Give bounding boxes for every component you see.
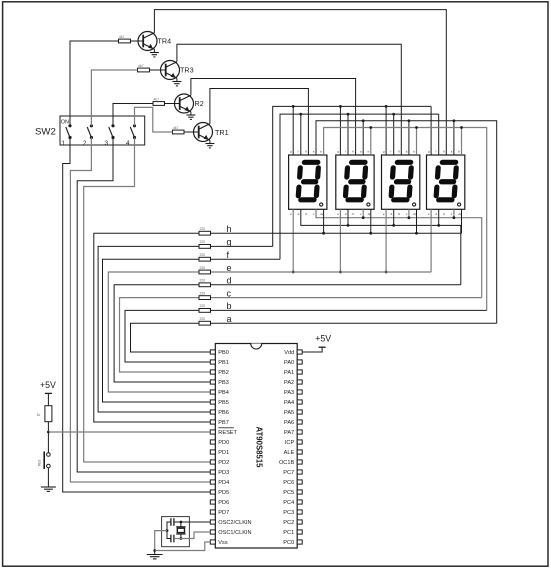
wire caps to ground xyxy=(155,531,167,551)
pin left RESET xyxy=(210,430,215,434)
svg-text:PC5: PC5 xyxy=(283,490,294,496)
pin left PD3 xyxy=(210,470,215,474)
resistor Rd xyxy=(199,283,211,287)
display DS1 seven-segment xyxy=(289,150,327,216)
wire dp pins down to h line xyxy=(323,209,325,233)
node OSC2 junction xyxy=(180,521,183,524)
pin right PA5 xyxy=(297,410,302,414)
ground reset button xyxy=(41,486,56,488)
wire C1 to OSC2 pin xyxy=(174,521,210,523)
pin right PC7 xyxy=(297,470,302,474)
wire pullup to reset node xyxy=(47,422,49,432)
svg-text:+5V: +5V xyxy=(315,334,331,344)
svg-text:3: 3 xyxy=(105,140,109,147)
transistor TR1 xyxy=(194,123,213,142)
svg-text:K: K xyxy=(443,212,445,216)
svg-text:1: 1 xyxy=(62,140,66,147)
wire a bus over displays xyxy=(316,121,497,323)
wire TR2 collector to display2 common xyxy=(191,79,356,156)
display DS3 seven-segment xyxy=(382,150,420,216)
resistor base TR2 xyxy=(153,102,165,106)
wire d bus under displays xyxy=(301,209,461,284)
pin right Vdd xyxy=(297,350,302,354)
svg-text:220: 220 xyxy=(200,266,206,270)
switch SW2 pole 2 xyxy=(90,124,93,127)
svg-text:OC1B: OC1B xyxy=(279,460,295,466)
pin left PD4 xyxy=(210,480,215,484)
svg-text:PD2: PD2 xyxy=(218,460,229,466)
pin right PC6 xyxy=(297,480,302,484)
wire SW2-3 to TR2 base resistor xyxy=(113,104,153,126)
svg-text:PA1: PA1 xyxy=(284,370,294,376)
pin left PB1 xyxy=(210,360,215,364)
pin right PC3 xyxy=(297,510,302,514)
svg-text:4k7: 4k7 xyxy=(138,64,144,68)
wire e pins down to e line xyxy=(292,209,294,272)
resistor Rh xyxy=(199,231,211,235)
svg-text:220: 220 xyxy=(200,291,206,295)
pin left PB3 xyxy=(210,380,215,384)
svg-text:OSC2/CLKIN: OSC2/CLKIN xyxy=(218,520,251,526)
svg-text:1k: 1k xyxy=(37,413,41,417)
capacitor C1 xyxy=(170,518,172,526)
pin left PD0 xyxy=(210,440,215,444)
wire TR3 collector to display3 common xyxy=(177,44,401,155)
wire segment net g xyxy=(211,245,273,247)
resistor Re xyxy=(199,270,211,274)
svg-text:K: K xyxy=(352,150,354,154)
svg-text:PC4: PC4 xyxy=(283,500,294,506)
wire segment net a xyxy=(211,322,497,324)
svg-text:PC6: PC6 xyxy=(283,480,294,486)
svg-text:K: K xyxy=(305,212,307,216)
svg-text:Vdd: Vdd xyxy=(284,350,294,356)
wire SW2-1 to TR4 base resistor xyxy=(70,41,119,126)
switch SW2 pole 4 xyxy=(133,124,136,127)
wire f bus over displays xyxy=(280,114,439,259)
svg-text:SW2: SW2 xyxy=(35,127,56,138)
svg-text:OSC1/CLKIN: OSC1/CLKIN xyxy=(218,530,251,536)
svg-text:PB2: PB2 xyxy=(218,370,229,376)
svg-text:PC7: PC7 xyxy=(283,470,294,476)
pin right OC1B xyxy=(297,460,302,464)
switch SW2 box xyxy=(60,116,145,145)
wire segment net h xyxy=(211,232,462,234)
svg-text:K: K xyxy=(398,212,400,216)
IC U1 AT90S8515 body xyxy=(215,344,297,549)
wire Vss to ground xyxy=(155,542,211,551)
wire b bus over displays xyxy=(324,128,487,311)
svg-text:PC3: PC3 xyxy=(283,510,294,516)
svg-text:K: K xyxy=(398,150,400,154)
pin right ALE xyxy=(297,450,302,454)
svg-text:TR4: TR4 xyxy=(158,37,172,46)
svg-text:PD5: PD5 xyxy=(218,490,229,496)
svg-text:TR1: TR1 xyxy=(215,128,229,137)
svg-text:PC0: PC0 xyxy=(283,540,294,546)
display DS2 seven-segment xyxy=(336,150,374,216)
wire SW2-2 to TR3 base resistor xyxy=(91,70,137,126)
resistor Rb xyxy=(199,309,211,313)
svg-text:K: K xyxy=(443,150,445,154)
pin left PB4 xyxy=(210,390,215,394)
wire SW2-4 to PD2 xyxy=(84,138,211,463)
svg-text:220: 220 xyxy=(200,304,206,308)
node OSC1 junction xyxy=(180,537,183,540)
wire SW2-3 to PD3 xyxy=(77,138,210,473)
node cap common junction xyxy=(166,529,169,532)
svg-text:PB3: PB3 xyxy=(218,380,229,386)
svg-text:220: 220 xyxy=(200,279,206,283)
svg-text:4k7: 4k7 xyxy=(119,35,125,39)
svg-text:4k7: 4k7 xyxy=(154,97,160,101)
svg-text:PB7: PB7 xyxy=(218,420,229,426)
node reset junction xyxy=(47,431,50,434)
svg-text:AT90S8515: AT90S8515 xyxy=(255,426,264,468)
wire SW2-2 to PD4 xyxy=(70,138,210,483)
ground under TR4 xyxy=(153,49,155,52)
pin left PD1 xyxy=(210,450,215,454)
svg-text:PD4: PD4 xyxy=(218,480,229,486)
svg-text:R2: R2 xyxy=(195,99,204,108)
pin left PB0 xyxy=(210,350,215,354)
wire TR2 base lead xyxy=(165,103,180,105)
crystal circuit enclosure xyxy=(162,517,190,547)
svg-text:PD0: PD0 xyxy=(218,440,229,446)
svg-text:PA6: PA6 xyxy=(284,420,294,426)
svg-text:PB5: PB5 xyxy=(218,400,229,406)
pin left PB5 xyxy=(210,400,215,404)
pin right PC5 xyxy=(297,490,302,494)
svg-text:PB0: PB0 xyxy=(218,350,229,356)
IC notch xyxy=(251,344,262,350)
svg-text:220: 220 xyxy=(200,253,206,257)
svg-text:220: 220 xyxy=(200,227,206,231)
wire g bus over displays xyxy=(273,106,431,246)
svg-text:PA4: PA4 xyxy=(284,400,294,406)
resistor Rf xyxy=(199,257,211,261)
pin left PB6 xyxy=(210,410,215,414)
resistor R9 1k pullup xyxy=(47,393,49,405)
svg-text:220: 220 xyxy=(200,240,206,244)
wire TR1 collector to display1 common xyxy=(210,89,309,156)
pin left PB2 xyxy=(210,370,215,374)
svg-text:f: f xyxy=(298,150,299,154)
pin left PD6 xyxy=(210,500,215,504)
pin right ICP xyxy=(297,440,302,444)
ground under TR1 xyxy=(209,140,211,143)
node ground junction xyxy=(153,549,156,552)
wire capacitor left commons xyxy=(167,522,171,539)
svg-text:f: f xyxy=(345,150,346,154)
svg-text:PD7: PD7 xyxy=(218,510,229,516)
pin right PC0 xyxy=(297,540,302,544)
resistor Rg xyxy=(199,245,211,249)
svg-text:4: 4 xyxy=(126,140,130,147)
svg-text:PA3: PA3 xyxy=(284,390,294,396)
pin right PA1 xyxy=(297,370,302,374)
resistor base TR3 xyxy=(138,68,150,72)
svg-text:+5V: +5V xyxy=(40,380,56,390)
wire segment net e xyxy=(211,271,432,273)
wire C2 to OSC1 pin xyxy=(174,532,210,539)
pin right PC2 xyxy=(297,520,302,524)
transistor TR3 xyxy=(161,61,180,80)
ground under TR3 xyxy=(176,78,178,81)
svg-text:220: 220 xyxy=(200,317,206,321)
svg-text:Vss: Vss xyxy=(218,540,228,546)
svg-text:a: a xyxy=(227,314,232,324)
ground under R2 xyxy=(190,112,192,115)
svg-text:TR3: TR3 xyxy=(180,66,194,75)
switch SW2 pole 3 xyxy=(111,124,114,127)
svg-text:2: 2 xyxy=(83,140,87,147)
svg-text:PA0: PA0 xyxy=(284,360,294,366)
crystal X1 xyxy=(180,522,182,527)
svg-text:PD6: PD6 xyxy=(218,500,229,506)
svg-text:PA7: PA7 xyxy=(284,430,294,436)
wire segment net f xyxy=(211,258,281,260)
pin right PA0 xyxy=(297,360,302,364)
wire SW2-4 to TR1 base resistor xyxy=(135,107,173,132)
svg-text:PC1: PC1 xyxy=(283,530,294,536)
svg-text:PA2: PA2 xyxy=(284,380,294,386)
wire segment net c xyxy=(211,297,482,299)
pin left OSC1/CLKIN xyxy=(210,530,215,534)
resistor Ra xyxy=(199,321,211,325)
pin left PD5 xyxy=(210,490,215,494)
wire segment net b xyxy=(211,309,487,311)
svg-text:h: h xyxy=(227,224,232,234)
resistor base TR4 xyxy=(119,39,131,43)
svg-text:PB1: PB1 xyxy=(218,360,229,366)
pin right PC1 xyxy=(297,530,302,534)
svg-text:ON: ON xyxy=(61,119,69,125)
svg-text:d: d xyxy=(227,276,232,286)
wire TR1 base lead xyxy=(184,131,199,133)
pin right PC4 xyxy=(297,500,302,504)
pin right PA2 xyxy=(297,380,302,384)
svg-text:4k7: 4k7 xyxy=(173,126,179,130)
resistor Rc xyxy=(199,296,211,300)
wire TR3 base lead xyxy=(150,69,166,71)
wire segment net d xyxy=(211,284,461,286)
wire button to ground xyxy=(47,468,49,487)
wire SW2-1 to PD5 xyxy=(63,138,211,493)
pin left PD2 xyxy=(210,460,215,464)
push button reset xyxy=(47,432,49,453)
wire c bus under displays xyxy=(316,209,482,297)
wire Vdd to +5V xyxy=(302,347,322,352)
svg-text:K: K xyxy=(305,150,307,154)
wire reset node to RESET pin xyxy=(48,431,210,433)
pin left PB7 xyxy=(210,420,215,424)
pin right PA6 xyxy=(297,420,302,424)
svg-text:g: g xyxy=(227,237,232,247)
transistor R2 xyxy=(175,94,194,113)
pin right PA4 xyxy=(297,400,302,404)
display DS4 seven-segment xyxy=(427,150,465,216)
svg-text:PD3: PD3 xyxy=(218,470,229,476)
svg-text:RES: RES xyxy=(38,460,42,467)
transistor TR4 xyxy=(138,32,157,51)
ground crystal xyxy=(154,551,156,555)
svg-text:PB6: PB6 xyxy=(218,410,229,416)
capacitor C2 xyxy=(170,535,172,543)
switch SW2 pole 1 xyxy=(68,124,71,127)
wire TR4 collector to display4 common xyxy=(154,10,446,155)
svg-text:PB4: PB4 xyxy=(218,390,229,396)
svg-text:ICP: ICP xyxy=(285,440,295,446)
pin left PD7 xyxy=(210,510,215,514)
pin left Vss xyxy=(210,540,215,544)
svg-text:b: b xyxy=(227,301,232,311)
wire TR4 base lead xyxy=(131,40,144,42)
pin right PA7 xyxy=(297,430,302,434)
svg-text:PA5: PA5 xyxy=(284,410,294,416)
resistor base TR1 xyxy=(173,130,185,134)
svg-text:ALE: ALE xyxy=(284,450,295,456)
svg-text:c: c xyxy=(227,288,232,298)
svg-text:e: e xyxy=(227,263,232,273)
svg-text:K: K xyxy=(352,212,354,216)
pin right PA3 xyxy=(297,390,302,394)
svg-text:PC2: PC2 xyxy=(283,520,294,526)
svg-text:PD1: PD1 xyxy=(218,450,229,456)
svg-text:RESET: RESET xyxy=(218,430,237,436)
pin left OSC2/CLKIN xyxy=(210,520,215,524)
